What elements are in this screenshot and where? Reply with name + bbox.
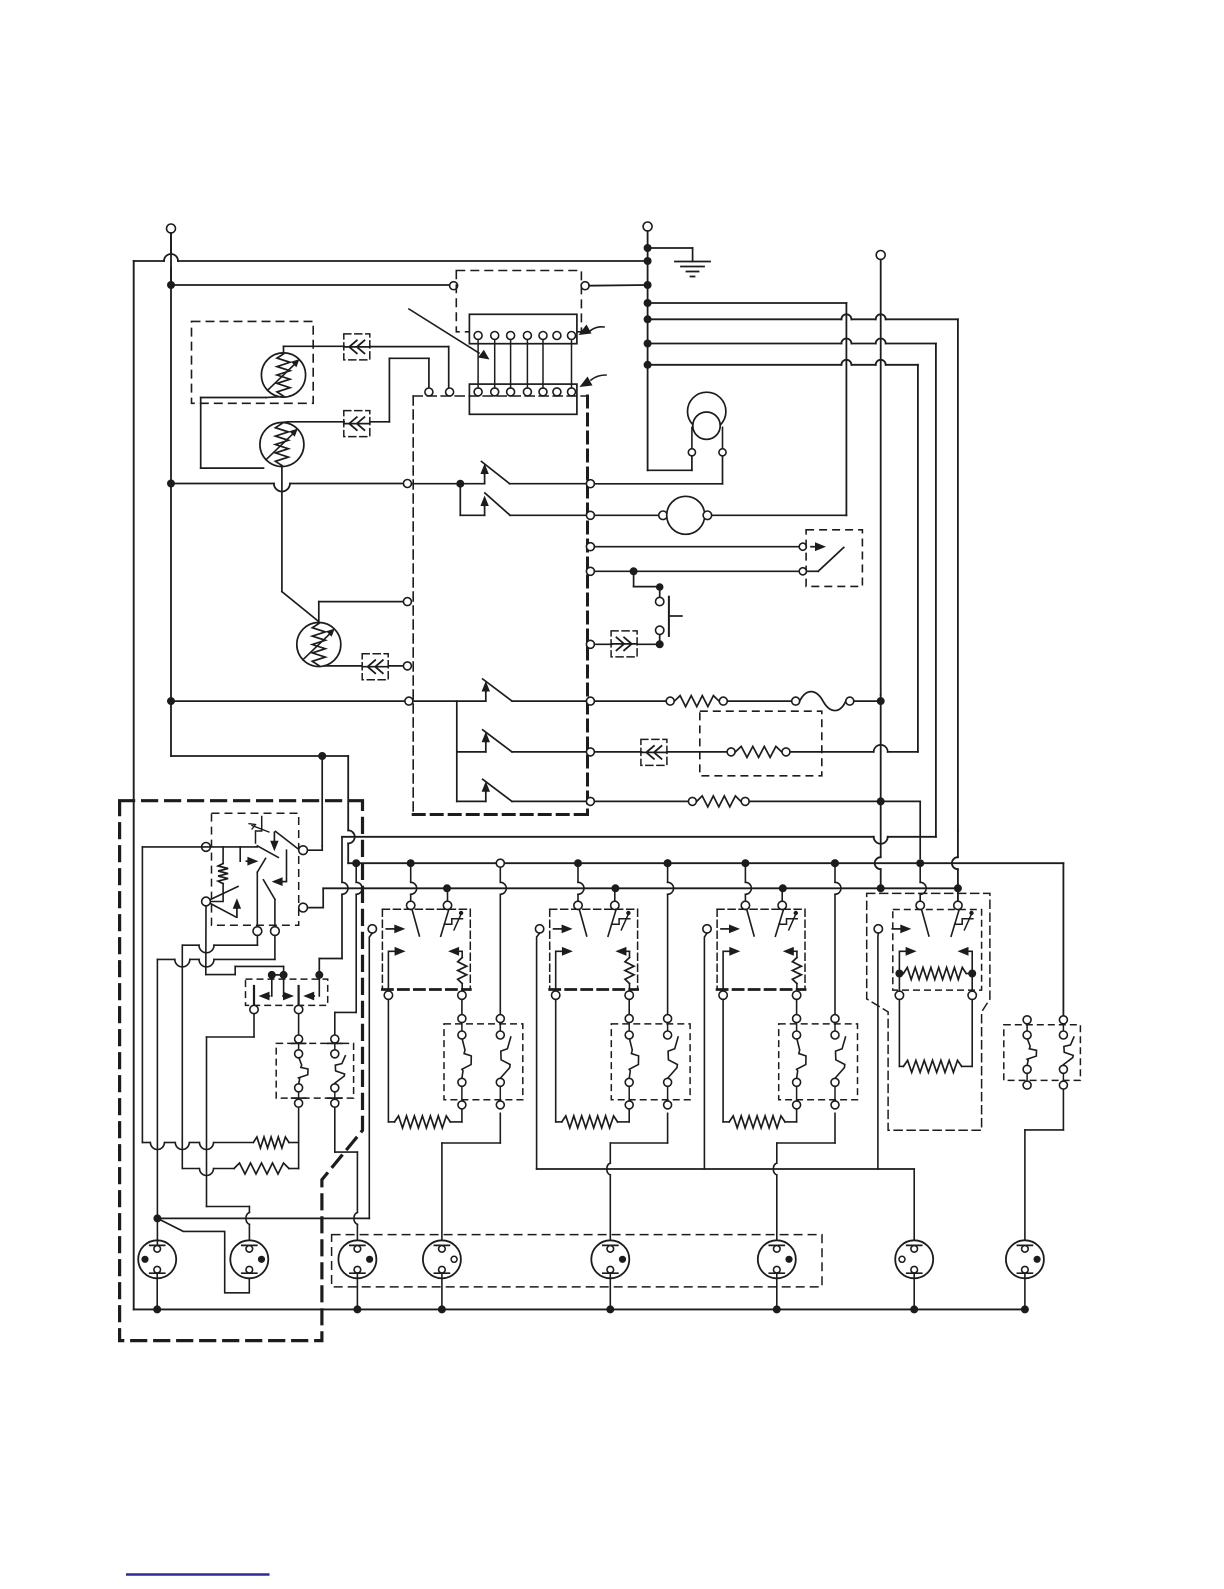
wire: pilot line 1 <box>157 1217 369 1219</box>
node: junction relay riser <box>318 752 326 760</box>
contact bar: flasher left <box>253 986 255 1005</box>
dashed box: receptacle group <box>332 1235 822 1287</box>
receptacle P1 <box>138 1240 176 1278</box>
wire: CN3 to switch box <box>389 665 404 667</box>
wire: CN4 to junction <box>637 643 656 645</box>
receptacle P5 <box>591 1240 629 1278</box>
connector chain: element left (B3) <box>793 1015 801 1023</box>
wire: line B drop hops <box>952 831 958 902</box>
terminal: burner pilot pin (B3) <box>703 925 711 933</box>
heater element H2 <box>260 423 304 467</box>
resistor: relay coil <box>210 847 228 902</box>
connector chain: element right (B3) <box>831 1015 839 1023</box>
arrow: B4 contact travel right <box>899 947 916 969</box>
terminal: B4 out B <box>968 991 976 999</box>
wire: flasher left bar to plug P2 <box>207 1014 255 1246</box>
wire: H1 bottom lead to H2 <box>201 397 284 469</box>
dashed box: oven sensor <box>700 711 822 776</box>
leader arrow to lower strip <box>580 375 607 387</box>
connector chain: element left (B2) <box>625 1015 633 1023</box>
wire: griddle element feed <box>899 1000 903 1067</box>
resistor: broil element section <box>697 796 741 807</box>
terminal: burner pilot pin (B1) <box>368 925 376 933</box>
dashed box: oven thermostat/relay assembly (heavy) <box>120 801 363 1341</box>
arrow: burner contact travel right (B2) <box>556 951 565 991</box>
oven lamp LP1 <box>688 392 726 449</box>
wire: B2 chain to plug P5 <box>607 1113 668 1245</box>
wire: L1 drop to junction on feed line (hop over top line) <box>170 268 172 281</box>
node: junction line C top <box>644 340 652 348</box>
dashed box: surface unit H1 enclosure <box>192 321 314 403</box>
resistor Ra (oven pilot resistor) <box>142 1137 298 1150</box>
wire: chain drop (B2) <box>667 863 669 882</box>
connector chain: element left (B1) <box>458 1015 466 1023</box>
wire: pilot line 2 <box>537 1169 915 1246</box>
node: line1 chain tap (B2) <box>664 859 672 867</box>
wire: lamp to N <box>648 456 692 470</box>
dashed box: oven unit switch <box>276 1043 353 1098</box>
node: bus/P6 <box>773 1305 781 1313</box>
terminal: burner switch out A (B1) <box>384 991 392 999</box>
terminal: burner switch L2 pin (B3) <box>778 901 786 909</box>
node: junction R/broil line <box>877 797 885 805</box>
wire: element feed (B1) <box>387 999 389 1122</box>
wire: H3 bottom lead <box>324 665 362 667</box>
switch blade: relay contact d <box>210 887 238 900</box>
dashed box: oven selector switch assembly <box>413 396 587 815</box>
wire: line 2 left drop (from relay) <box>322 888 324 907</box>
wire: door switch line 1 <box>594 546 798 548</box>
wire: B1 chain to plug P4 <box>442 1113 500 1245</box>
switch blade: burner contact 1 (B2) <box>580 910 587 936</box>
lower terminal strip (connector block lower row) <box>469 384 577 414</box>
wire: element feed (B2) <box>555 999 557 1122</box>
wire: element to connector (B3) <box>785 1121 797 1123</box>
heater element H3 <box>297 623 341 667</box>
wire: relay riser (to relay box) <box>321 756 323 850</box>
node: bus/P7 <box>910 1305 918 1313</box>
terminal <box>846 697 854 705</box>
wire: bake element line <box>594 700 666 702</box>
wire C: relay pin3 to flasher <box>206 906 284 975</box>
wire: burner feed TR drop (B2) <box>614 888 616 901</box>
wire: H2 bottom lead drop <box>281 467 283 592</box>
node: junction line1/B1 <box>407 859 415 867</box>
connector chain: oven switch right <box>328 1035 346 1107</box>
terminal <box>666 697 674 705</box>
wire: top horizontal line y=261 (left feed) <box>134 254 648 261</box>
switch blade: burner contact 2 (B2) <box>608 911 616 937</box>
node: bus/P3 <box>353 1305 361 1313</box>
dashed box: surface unit switch (B1) <box>382 908 470 910</box>
wire: element to connector (B2) <box>618 1121 630 1123</box>
resistor: bake element section <box>675 696 720 707</box>
node: flasher terminal c <box>315 971 323 979</box>
dashed box: element connector block (B2) <box>611 1024 690 1100</box>
node: flasher terminal a <box>268 971 276 979</box>
terminal <box>688 797 696 805</box>
terminal: flasher right bar <box>294 1005 302 1013</box>
wire: B4 resistor leads <box>899 973 972 975</box>
terminal R (top-right supply terminal) <box>876 251 885 696</box>
node: junction line2/B1 <box>443 884 451 892</box>
terminal: B4 out A <box>895 991 903 999</box>
terminal: relay pin 2 (top-right) <box>299 846 308 855</box>
node: switch S1 junction <box>456 480 464 488</box>
node: junction line2/line B <box>954 884 962 892</box>
wire: oven switch left chain to resistors <box>298 1107 300 1168</box>
wire: P7 to bus <box>913 1273 915 1305</box>
terminal: burner switch out B (B2) <box>625 991 633 999</box>
node: junction feed/N <box>644 281 652 289</box>
wire: switch outB to connector (B2) <box>628 999 630 1014</box>
receptacle P3 <box>338 1240 376 1278</box>
node: bus/P5 <box>606 1305 614 1313</box>
connector chain: aux switch left (spare) <box>1023 1016 1031 1024</box>
switch blade: door switch <box>806 547 843 571</box>
arrow: burner contact travel right (B1) <box>388 951 397 991</box>
node: ground tap junction <box>644 244 652 252</box>
wire: line C <box>648 339 936 837</box>
node: junction line1/B2 chain <box>664 859 672 867</box>
wire: resistor to terminal (B2) <box>629 984 631 992</box>
wire: neutral bus <box>134 1308 1025 1310</box>
node: junction line2/B2 <box>611 884 619 892</box>
wire: CN1 to strip terminal <box>370 347 449 388</box>
resistor: sensor element <box>735 746 781 757</box>
leader arrow to upper strip <box>579 325 605 336</box>
terminal: relay pin 5 <box>253 927 262 936</box>
wire: burner feed TL drop (B2) <box>577 863 579 882</box>
connector chain: element right (B1) <box>496 1015 504 1023</box>
arrow: relay contact travel (left) <box>272 850 287 886</box>
heater element H1 <box>261 353 305 397</box>
node: junction line2/B3 <box>779 884 787 892</box>
node: junction R/bake line <box>877 697 885 705</box>
wire: relay pin4 to line2 riser <box>308 907 324 909</box>
wire: feed line y=285 from L1 to transformer box <box>171 284 450 286</box>
terminal N (top-center supply terminal) <box>643 222 652 470</box>
switch blade: burner contact 1 (B3) <box>747 910 754 936</box>
terminal: burner switch out B (B1) <box>458 991 466 999</box>
wires: strip interconnect leads <box>478 340 571 388</box>
receptacle P4 <box>423 1240 461 1278</box>
arrow: relay contact travel (down) <box>273 832 275 841</box>
wire: contact f drop <box>274 899 276 927</box>
terminal: burner pilot pin (B2) <box>535 925 543 933</box>
wire: switch outB to connector (B1) <box>461 999 463 1014</box>
wire: aux switch to plug P8 <box>1025 1089 1064 1245</box>
resistor: pilot lamp resistor (B1) <box>458 958 467 984</box>
wire: B3 pilot drop <box>704 933 707 1169</box>
terminal <box>719 697 727 705</box>
node: B4 resistor right <box>968 970 976 978</box>
switch blade: burner contact 2 (B1) <box>441 911 449 937</box>
receptacle P6 <box>758 1240 796 1278</box>
resistor Rb (oven pilot resistor 2) <box>182 1163 298 1176</box>
node: flasher terminal b <box>280 971 288 979</box>
thermal fuse F1 <box>800 692 846 711</box>
arrow: flasher contact b <box>283 975 294 1000</box>
wire: B4 out stubs <box>899 978 972 991</box>
arrow: relay contact travel (up) <box>236 909 238 918</box>
wire: to R vertical <box>854 700 881 702</box>
wire: burner feed TL drop (B3) <box>744 863 746 882</box>
wire: resistor to terminal (B1) <box>461 984 463 992</box>
wire: left main vertical line (L side) <box>133 261 135 1309</box>
connector: quick-disconnect CN1 <box>344 334 370 360</box>
timer motor M1 <box>659 496 712 534</box>
wire: lamp line <box>594 456 722 484</box>
wire: H3 top lead to switch box <box>319 602 404 623</box>
arrow: flasher contact a <box>259 975 272 1000</box>
wire: chain drop (B3) <box>834 863 836 882</box>
arrow: pilot feed (B1) <box>386 928 394 930</box>
wire: flasher right bar to oven switch <box>298 1014 300 1035</box>
wire: oven switch right chain to plug P3 <box>335 1107 358 1245</box>
wire: line D <box>648 360 918 752</box>
wire: element feed (B3) <box>722 999 724 1122</box>
receptacle P2 <box>230 1240 268 1278</box>
resistor: griddle pilot resistor <box>903 968 966 980</box>
arrow: burner contact travel left (B2) <box>615 947 626 956</box>
wire: thermostat feed line (y=756) <box>171 755 322 757</box>
dashed box: griddle unit outline <box>867 893 990 1130</box>
node: junction line1/B3 <box>741 859 749 867</box>
wire: H2 to H3 diagonal <box>282 592 319 622</box>
terminal: lead-in right pin <box>446 388 454 396</box>
wire A: relay pin5 to resistor Rb drop <box>182 936 257 1169</box>
wire: broil element line <box>594 800 688 802</box>
node: junction L1/lower switch line <box>167 697 175 705</box>
wire: CN2 up and over to strip terminal <box>370 358 429 422</box>
node: junction top line/N <box>644 257 652 265</box>
wire: y=285 continues to N vertical <box>589 284 648 287</box>
dashed box: griddle switch <box>893 910 982 991</box>
terminal: B4 switch L1 pin <box>916 901 924 909</box>
terminal <box>727 748 735 756</box>
connector: quick-disconnect CN2 <box>344 411 370 437</box>
wire: relay pin1 to Ra <box>142 847 210 1143</box>
wire: B2 pilot drop (pilot line 2 start) <box>537 933 540 1169</box>
wire: P8 to bus <box>1024 1273 1026 1305</box>
upper terminal strip (connector block upper row) <box>469 314 577 343</box>
terminal: switch box left pin C <box>403 662 411 670</box>
arrow: B4 pilot feed <box>892 928 900 930</box>
connector chain: oven switch left <box>292 1035 308 1107</box>
node: B4 resistor left <box>895 970 903 978</box>
wire: CN5 to sensor box <box>667 751 727 753</box>
wire: relay top jog <box>256 817 262 844</box>
node: line1 chain tap (B3) <box>831 859 839 867</box>
wire: element to connector (B1) <box>450 1121 462 1123</box>
leader arrow to interconnect leads <box>409 309 490 360</box>
wire: burner feed TR drop (B1) <box>447 888 449 901</box>
terminal: relay pin 6 <box>271 927 280 936</box>
node: junction line B top <box>644 315 652 323</box>
switch S4 (broil switch) <box>457 730 587 752</box>
arrow: B4 contact travel left <box>958 947 973 969</box>
terminal: burner switch L2 pin (B2) <box>611 901 619 909</box>
terminal: burner switch L1 pin (B2) <box>574 901 582 909</box>
resistor: pilot lamp resistor (B2) <box>625 958 634 984</box>
wire: P4 to bus <box>441 1273 443 1305</box>
dashed box: top terminal unit (oven connector block) <box>456 271 581 332</box>
switch blade: relay contact a <box>257 846 278 858</box>
terminal: switch box left pin D <box>405 697 413 705</box>
terminal <box>782 748 790 756</box>
dashed box: surface unit switch (B2) <box>550 908 638 910</box>
node: junction L1/feed <box>167 281 175 289</box>
terminal: right terminal of top dashed unit <box>581 282 589 290</box>
wire: chain drop (B1) <box>499 867 501 882</box>
thermal compensator mark (B4) <box>955 911 974 930</box>
terminal: S2 out <box>586 511 594 519</box>
terminal <box>741 797 749 805</box>
resistor: pilot lamp resistor (B3) <box>792 958 801 984</box>
connector: quick-disconnect CN3 <box>362 654 388 680</box>
wire: R vertical hops and end <box>875 695 881 888</box>
switch S2 (motor switch) <box>460 484 586 516</box>
pushbutton PB1 (door plunger) <box>656 597 682 641</box>
leader: relay adjust arrow <box>249 824 269 832</box>
wire: oven switch right chain feed (from line 1) <box>335 863 362 1035</box>
resistor: surface heating element (B1) <box>395 1116 451 1128</box>
connector chain: aux switch right <box>1059 1016 1067 1024</box>
terminals: upper strip pins <box>474 332 575 340</box>
wire: burner feed TR drop (B3) <box>781 888 783 901</box>
wire: motor line left <box>594 514 658 516</box>
wire: line 2 (burner feed line 2) <box>323 887 954 889</box>
wire <box>727 700 791 702</box>
switch blade: B4 contact 1 <box>922 910 929 936</box>
arrow: door switch travel <box>811 546 815 548</box>
resistor: griddle heating element <box>903 1060 961 1072</box>
dashed box: door/light switch <box>806 530 862 587</box>
wire: B4 feed TL drop <box>920 863 926 901</box>
ground symbol <box>648 248 710 277</box>
wire: B1 pilot drop to pilot line <box>369 933 372 1218</box>
dashed box: pilot flasher <box>246 979 328 1005</box>
dashed box: surface unit switch (B3) <box>717 908 805 910</box>
terminal: switch box left pin A <box>403 480 411 488</box>
wire: P3 to bus <box>356 1273 358 1305</box>
wire: B3 chain to plug P6 <box>773 1113 835 1245</box>
wire: H2 top lead to quick-connect <box>282 421 344 424</box>
contact bar: flasher right <box>298 986 300 1005</box>
terminal: S5 out <box>586 797 594 805</box>
wire: B4 feed TR drop <box>957 893 959 902</box>
wire: line B <box>648 314 958 830</box>
node: bus/P8 <box>1021 1305 1029 1313</box>
switch S5 (element switch) <box>457 779 587 801</box>
node: junction line1/oven chain <box>352 859 360 867</box>
terminal: relay pin 4 (bottom-right) <box>299 903 308 912</box>
node: junction line1/line D drop <box>916 859 924 867</box>
wire: connector line to pushbutton <box>594 643 612 645</box>
node: junction line1/B2 <box>574 859 582 867</box>
terminal: lead-in left pin <box>425 388 433 396</box>
node: junction line1/B3 chain <box>831 859 839 867</box>
terminal: burner switch out B (B3) <box>792 991 800 999</box>
terminal: burner switch out A (B2) <box>552 991 560 999</box>
dashed box: auxiliary switch <box>1004 1025 1081 1081</box>
wire: H1 top lead to quick-connect <box>284 346 345 353</box>
dashed box: element connector block (B1) <box>444 1024 523 1100</box>
thermal compensator mark (B1) <box>444 919 462 925</box>
resistor: surface heating element (B3) <box>729 1116 785 1128</box>
switch S3 (bake switch) <box>413 679 586 701</box>
footer rule <box>126 1573 270 1576</box>
wire: broil line left <box>594 751 641 753</box>
terminals: lower strip pins <box>474 388 575 396</box>
wire: switch feed line y=483.5 (hop under H2 lead) <box>171 484 403 492</box>
resistor: surface heating element (B2) <box>562 1116 618 1128</box>
wire: P1 top lead <box>156 1218 158 1245</box>
arrow: burner contact travel left (B1) <box>448 947 459 956</box>
wire: lower switch feed line y=701 <box>171 700 405 702</box>
node: junction line A top <box>644 299 652 307</box>
terminal: left terminal of top dashed unit <box>450 282 458 290</box>
dashed box: oven relay/thermostat contacts <box>212 813 299 925</box>
wire: S3-S5 common drop <box>456 701 458 801</box>
node: pushbutton tap <box>630 567 638 575</box>
terminal: S4 out <box>586 748 594 756</box>
dashed box: element connector block (B3) <box>779 1024 858 1100</box>
terminal: door switch common <box>799 543 806 550</box>
thermal compensator mark (B2) <box>612 919 630 925</box>
terminal: switch box right pins (aux) <box>586 543 594 649</box>
arrow: burner contact travel right (B3) <box>723 951 732 991</box>
terminal: B4 pilot pin <box>874 925 882 933</box>
terminal: burner switch L2 pin (B1) <box>443 901 451 909</box>
switch blade: relay contact c <box>257 858 265 926</box>
wire: P1 to bus <box>156 1273 158 1305</box>
switch S1 (oven lamp switch) <box>411 462 586 484</box>
wire: pilot return loop (P2 lower) <box>157 1218 249 1292</box>
wire: burner feed TL drop (B1) <box>410 863 412 882</box>
wire: B4 pilot drop <box>877 933 879 1169</box>
arrow: pilot feed (B3) <box>721 928 729 930</box>
wire: resistor to terminal (B3) <box>796 984 798 992</box>
terminal: S3 out <box>586 697 594 705</box>
node: junction line2/R end <box>877 884 885 892</box>
terminals: lamp leads <box>688 449 726 456</box>
wire: flasher riser (line E down to flasher) <box>319 837 348 971</box>
terminal: flasher left bar <box>250 1005 258 1013</box>
wire: broil line to line1 drop <box>881 801 921 858</box>
switch blade: burner contact 2 (B3) <box>775 911 783 937</box>
terminal: door switch blade pin <box>799 568 806 575</box>
wire: pushbutton feed <box>634 571 664 597</box>
wire: door switch line 2 <box>594 570 798 572</box>
terminal L1 (top-left supply terminal) <box>167 224 176 254</box>
terminal: switch box left pin B <box>403 598 411 606</box>
terminal: burner switch L1 pin (B1) <box>407 901 415 909</box>
wire: sensor to line D (hop over R) <box>790 745 918 752</box>
receptacle P7 <box>895 1240 933 1278</box>
wire: flasher terminal link <box>272 974 284 976</box>
connector: quick-disconnect CN5 <box>641 739 667 765</box>
arrow: flasher contact c <box>303 975 319 1000</box>
switch blade: relay contact f <box>263 880 275 900</box>
node: junction line D top <box>644 361 652 369</box>
terminal: S1 out <box>586 480 594 488</box>
wire: relay pin2 to riser <box>308 849 323 851</box>
switch blade: burner contact 1 (B1) <box>412 910 419 936</box>
wire: V756 drop to line 1 (hop over line E) <box>322 756 355 863</box>
wire <box>749 800 881 802</box>
